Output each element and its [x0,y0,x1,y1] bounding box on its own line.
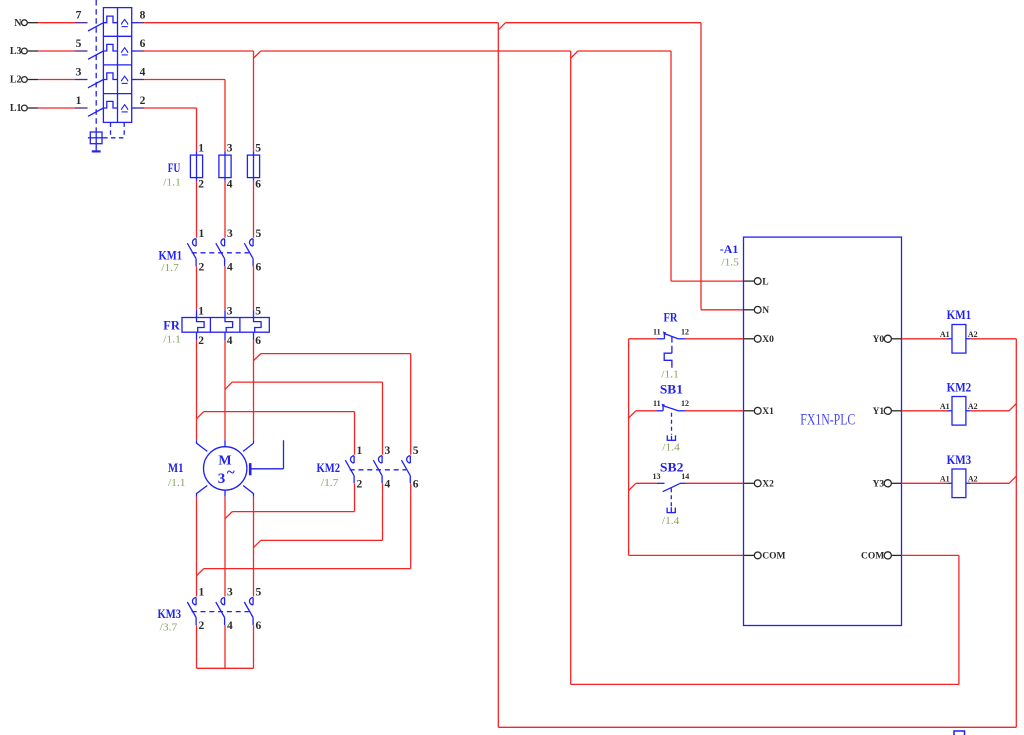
thermal relay FR housing [182,318,269,333]
PLC ref /1.5 [721,257,739,268]
wire KM1 to FR [253,266,255,310]
breaker QF mechanism box with cross [88,132,103,151]
thermal relay FR heater 1-2 [197,306,205,347]
svg-text:6: 6 [255,178,261,190]
thermal relay FR trip link [664,337,672,368]
pushbutton SB2 operator link [667,488,676,512]
PLC input terminal N [744,306,770,316]
junction chamfer L3 to fuse column [254,51,261,58]
svg-text:/1.4: /1.4 [662,443,680,454]
junction chamfer A2 bus [1009,476,1016,483]
contactor KM2 main contact 1-2 [345,445,362,491]
wire N return branch vertical [497,23,499,728]
PLC input terminal X0 [744,335,775,345]
svg-text:12: 12 [681,328,689,337]
wire L2 lead [38,79,87,81]
wire FR-6 to KM2 pole 5 [261,354,411,455]
svg-text:/1.7: /1.7 [321,478,339,489]
breaker QF pole L3 magnetic element [122,48,128,55]
svg-text:3: 3 [76,66,82,78]
fuse FU element terminal 5-6 [247,143,261,191]
contactor KM3 ref /3.7 [160,623,178,634]
breaker QF pole N magnetic element [122,19,128,26]
svg-text:1: 1 [76,95,82,107]
svg-text:/1.1: /1.1 [163,178,181,189]
svg-text:A2: A2 [968,475,978,484]
svg-text:5: 5 [255,306,261,318]
svg-text:4: 4 [140,66,146,78]
breaker QF pole L1 thermal element [103,101,117,108]
breaker QF operating mechanism dashed link [96,0,124,138]
wire motor V column down [224,497,226,597]
fuse FU ref /1.1 [163,178,181,189]
contactor KM2 label [317,460,341,475]
svg-text:M1: M1 [168,460,184,475]
thermal relay FR NC contact 11-12 [653,328,689,340]
svg-text:KM1: KM1 [947,307,972,322]
motor M1 top leads [197,440,254,451]
pushbutton SB2 ref /1.4 [662,516,680,527]
wire FR-4 to KM2 pole 3 [232,382,382,455]
svg-text:2: 2 [357,478,363,490]
svg-text:A1: A1 [940,402,950,411]
svg-text:1: 1 [199,228,205,240]
junction chamfer N branch [498,23,505,30]
wire SB1 to X1 [686,410,744,412]
fuse FU label [168,160,181,175]
svg-text:~: ~ [227,465,235,481]
breaker QF pole L3 terminal 6 [132,38,146,51]
svg-text:2: 2 [199,261,205,273]
breaker QF pole L2 thermal element [103,73,117,80]
svg-text:12: 12 [681,399,689,408]
svg-text:KM3: KM3 [947,452,972,467]
wire KM2-6 to motor U lead [204,484,411,569]
motor M1 ref /1.1 [168,478,186,489]
svg-text:/1.5: /1.5 [721,257,739,268]
PLC input terminal X2 [744,480,775,490]
source terminal L2 [10,75,38,86]
wire FR-4 column down [224,340,226,440]
fuse FU element terminal 3-4 [219,143,233,191]
svg-text:3: 3 [227,587,233,599]
wire SB2 to X2 [686,482,744,484]
svg-text:FR: FR [664,310,678,325]
svg-text:L3: L3 [10,46,22,57]
breaker QF pole L2 terminal 4 [132,66,146,79]
PLC output terminal Y1 [873,407,902,417]
junction chamfer FR-2 branch [197,412,204,419]
wire bus to SB1 [636,410,657,412]
svg-text:1: 1 [198,143,204,155]
wire N line from breaker 8 [144,22,498,24]
contactor KM3 main contact 3-4 [216,587,233,633]
svg-text:COM: COM [762,552,785,562]
wire FR contact to X0 [686,338,744,340]
pushbutton SB1 NC contact 11-12 [653,399,689,411]
svg-text:KM2: KM2 [947,380,972,395]
wire motor U column down [196,497,198,597]
motor M1 text M 3~ [218,454,235,488]
svg-text:A1: A1 [940,330,950,339]
svg-text:3: 3 [227,143,233,155]
svg-text:A2: A2 [968,330,978,339]
breaker QF pole L3 terminal 5 [76,38,82,50]
svg-text:4: 4 [227,261,233,273]
junction chamfer motor U [197,569,204,576]
wire coil KM1 to A2 bus [970,338,1016,340]
wire KM2-2 to motor V lead [232,484,354,512]
wire L1 lead [38,107,87,109]
wire FR-2 to KM2 pole 1 [204,412,355,455]
contactor KM1 linkage dashed [192,252,249,254]
pushbutton SB1 label [660,382,683,397]
svg-text:1: 1 [198,306,204,318]
breaker QF pole N blade (open) [88,23,103,31]
svg-text:6: 6 [256,261,262,273]
contactor KM1 main contact 3-4 [216,228,233,273]
breaker QF pole N terminal 7 [76,10,82,22]
svg-text:4: 4 [227,178,233,190]
svg-text:6: 6 [255,335,261,347]
svg-text:Y3: Y3 [873,480,885,490]
breaker QF pole L1 terminal 1 [76,95,82,107]
svg-text:4: 4 [227,620,233,632]
svg-text:FX1N-PLC: FX1N-PLC [800,411,855,428]
wire bus to COM [629,554,744,556]
svg-text:4: 4 [227,335,233,347]
svg-text:5: 5 [76,38,82,50]
wire fuse to KM1 [224,181,226,238]
wire coil KM2 to A2 bus [970,410,1009,412]
contactor coil KM2 A1-A2 [940,397,978,426]
junction chamfer FR-6 branch [254,354,261,361]
svg-text:X0: X0 [762,335,774,345]
junction chamfer A2 bus [1009,404,1016,411]
breaker QF pole N thermal element [103,16,117,23]
svg-text:N: N [762,306,769,316]
junction chamfer motor W [254,540,261,547]
wire L3 line continues [261,50,571,52]
svg-text:3: 3 [218,471,226,487]
thermal relay FR heater 5-6 [254,306,262,347]
svg-text:3: 3 [385,445,391,457]
svg-text:3: 3 [227,228,233,240]
svg-text:/1.1: /1.1 [661,369,679,380]
PLC unit -A1 housing [744,237,902,625]
svg-text:X2: X2 [762,480,774,490]
wire fuse to KM1 [253,181,255,238]
breaker QF pole L1 magnetic element [122,105,128,112]
svg-text:/1.4: /1.4 [662,516,680,527]
svg-text:Y1: Y1 [873,407,885,417]
contactor KM3 label [158,606,182,621]
svg-text:FU: FU [168,160,181,175]
breaker QF pole L1 blade (open) [88,108,103,116]
wire KM3 to star point [253,625,255,668]
wire L3 line from breaker 6 [144,50,253,52]
source terminal L3 [10,46,38,57]
wire KM1 to FR [196,266,198,310]
svg-text:KM3: KM3 [158,606,182,621]
wire L3 lead [38,50,87,52]
contactor KM1 main contact 5-6 [244,228,261,273]
thermal relay FR aux label [664,310,678,325]
svg-text:5: 5 [256,228,262,240]
wire control common bus [629,339,657,556]
PLC output terminal COM [861,552,902,562]
contactor coil KM3 A1-A2 [940,469,978,498]
svg-text:5: 5 [256,587,262,599]
junction chamfer FR-4 branch [225,382,232,389]
wire Y output to coil KM1 [902,338,953,340]
junction chamfer bus SB1 [629,411,636,418]
svg-text:5: 5 [255,143,261,155]
contactor coil KM1 A1-A2 [940,325,978,354]
svg-text:5: 5 [413,445,419,457]
svg-text:2: 2 [140,95,146,107]
breaker QF housing [103,8,131,123]
svg-text:KM2: KM2 [317,460,341,475]
PLC input terminal X1 [744,407,775,417]
motor M1 shaft linkage [250,440,283,475]
svg-text:6: 6 [413,478,419,490]
wire KM3 to star point [196,625,198,668]
breaker QF pole L3 thermal element [103,44,117,51]
wire N lead [38,22,87,24]
pushbutton SB2 label [660,460,684,475]
source terminal L1 [10,103,38,114]
svg-text:4: 4 [385,478,391,490]
pushbutton SB1 operator link [667,413,676,441]
wire N line to PLC [506,23,744,310]
svg-text:Y0: Y0 [873,335,885,345]
svg-text:8: 8 [140,10,146,22]
svg-text:COM: COM [861,552,884,562]
svg-text:A2: A2 [968,402,978,411]
PLC output terminal Y3 [873,480,902,490]
wire KM1 to FR [224,266,226,310]
svg-text:/3.7: /3.7 [160,623,178,634]
contactor KM1 main contact 1-2 [187,228,204,273]
junction chamfer bus SB2 [629,483,636,490]
svg-text:11: 11 [653,328,661,337]
contactor KM1 label [159,248,183,263]
junction chamfer L3 control branch [571,51,578,58]
svg-text:L2: L2 [10,75,22,86]
contactor KM3 main contact 1-2 [187,587,204,633]
page connector square [954,731,965,735]
svg-text:7: 7 [76,10,82,22]
contactor KM2 main contact 5-6 [402,445,419,491]
svg-text:/1.1: /1.1 [163,335,181,346]
wire A2 return bus [498,339,1016,728]
PLC label -A1 [720,242,739,256]
svg-text:SB1: SB1 [660,382,683,397]
breaker QF pole L2 magnetic element [122,76,128,83]
contactor KM2 main contact 3-4 [373,445,390,491]
svg-text:A1: A1 [940,475,950,484]
svg-text:L1: L1 [10,103,22,114]
wire FR-6 column down [253,340,255,440]
contactor KM2 ref /1.7 [321,478,339,489]
contactor KM3 linkage dashed [192,611,249,613]
thermal relay FR heater 3-4 [225,306,233,347]
wire L1 to fuse FU left [144,108,196,151]
wire L3 control branch vertical [570,51,572,684]
svg-text:KM1: KM1 [159,248,183,263]
svg-text:/1.1: /1.1 [168,478,186,489]
contactor KM2 linkage dashed [350,469,406,471]
wire COM output return [571,555,959,684]
svg-text:2: 2 [199,620,205,632]
PLC input terminal COM [744,552,786,562]
motor M1 circle [204,447,247,490]
wire KM3 to star point [224,625,226,668]
pushbutton SB1 ref /1.4 [662,443,680,454]
svg-text:SB2: SB2 [660,460,684,475]
contactor coil KM3 label [947,452,972,467]
PLC input terminal L [744,277,769,287]
wire motor W column down [253,497,255,597]
thermal relay FR label [163,318,180,333]
breaker QF pole N terminal 8 [132,10,146,23]
source terminal N [14,18,38,29]
wire KM2-4 to motor W lead [261,484,383,541]
fuse FU element terminal 1-2 [190,143,204,191]
svg-text:X1: X1 [762,407,774,417]
motor M1 label [168,460,184,475]
svg-text:FR: FR [163,318,180,333]
PLC type label FX1N-PLC [800,411,855,428]
wire L3 line to PLC L [578,51,744,281]
PLC output terminal Y0 [873,335,902,345]
svg-text:6: 6 [256,620,262,632]
wire bus to SB2 [636,482,657,484]
breaker QF pole L1 terminal 2 [132,95,146,108]
contactor KM1 ref /1.7 [161,263,179,274]
wire fuse to KM1 [196,181,198,238]
breaker QF pole L2 terminal 3 [76,66,82,78]
wire L3 down to fuse FU right [253,51,255,151]
pushbutton SB2 NO contact 13-14 [653,472,690,492]
svg-text:-A1: -A1 [720,242,739,256]
svg-text:1: 1 [199,587,205,599]
wire L2 to fuse FU middle [144,80,225,152]
contactor KM3 main contact 5-6 [244,587,261,633]
thermal relay FR ref /1.1 [163,335,181,346]
wire star point bar [197,667,254,669]
wire Y output to coil KM2 [902,410,953,412]
svg-text:6: 6 [140,38,146,50]
junction chamfer motor V [225,512,232,519]
svg-text:/1.7: /1.7 [161,263,179,274]
wire FR-2 column down [196,340,198,440]
breaker QF pole L3 blade (open) [88,51,103,59]
wire Y output to coil KM3 [902,482,953,484]
breaker QF pole L2 blade (open) [88,80,103,88]
svg-text:L: L [762,277,768,287]
contactor coil KM1 label [947,307,972,322]
motor M1 bottom leads [197,486,254,497]
svg-text:11: 11 [653,399,661,408]
contactor coil KM2 label [947,380,972,395]
svg-text:1: 1 [357,445,363,457]
thermal relay FR aux ref /1.1 [661,369,679,380]
svg-text:2: 2 [198,335,204,347]
svg-text:3: 3 [227,306,233,318]
wire coil KM3 to A2 bus [970,482,1009,484]
svg-text:2: 2 [198,178,204,190]
